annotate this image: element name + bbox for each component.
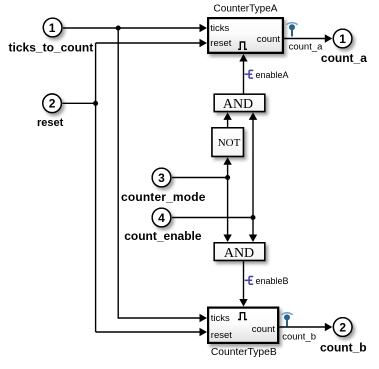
svg-text:enableA: enableA bbox=[256, 70, 289, 80]
wire enableA: AND1 output to CounterTypeA enable port bbox=[243, 61, 245, 94]
wire count_enable: port4 to AND1 input and AND2 input bbox=[172, 119, 253, 236]
svg-text:count: count bbox=[252, 324, 276, 335]
svg-text:count_b: count_b bbox=[282, 332, 316, 343]
junction dot node ticks bbox=[116, 26, 121, 31]
wire ticks_to_count: port1 to CounterTypeA ticks and down to CounterTypeB ticks bbox=[63, 28, 200, 318]
enable port icon B bbox=[245, 277, 254, 285]
block CounterTypeA bbox=[208, 18, 283, 53]
arrowhead NOT output into AND1 bbox=[223, 112, 231, 120]
arrowhead reset into CounterTypeB bbox=[200, 328, 208, 336]
arrowhead enableB into CounterTypeB bbox=[239, 299, 247, 307]
svg-text:AND: AND bbox=[224, 246, 254, 261]
arrowhead count_b into outport 2 bbox=[325, 323, 333, 331]
svg-text:count: count bbox=[257, 34, 281, 45]
wire reset: port2 to CounterTypeA reset and CounterTypeB reset bbox=[63, 43, 201, 332]
svg-text:counter_mode: counter_mode bbox=[121, 190, 206, 204]
svg-text:2: 2 bbox=[49, 97, 56, 111]
svg-text:count_a: count_a bbox=[321, 51, 367, 65]
svg-text:ticks_to_count: ticks_to_count bbox=[9, 41, 94, 55]
junction dot node counter_mode bbox=[225, 175, 230, 180]
arrowhead reset into CounterTypeA bbox=[200, 39, 208, 47]
arrowhead counter_mode into NOT bbox=[223, 157, 231, 165]
inport 2 bbox=[43, 94, 62, 113]
arrowhead count_enable into AND2 bbox=[249, 235, 257, 243]
svg-text:reset: reset bbox=[211, 330, 232, 341]
enable port icon A bbox=[245, 70, 254, 78]
gate AND2 bbox=[214, 243, 265, 261]
svg-text:enableB: enableB bbox=[256, 276, 289, 286]
svg-text:count_enable: count_enable bbox=[124, 229, 202, 243]
wire NOT output to AND1 input bbox=[227, 119, 229, 127]
arrowhead enableA into CounterTypeA bbox=[239, 54, 247, 62]
svg-text:4: 4 bbox=[158, 211, 165, 225]
outport 1 bbox=[333, 29, 352, 48]
svg-text:NOT: NOT bbox=[218, 137, 241, 149]
wire counter_mode: port3 to NOT input and AND2 input bbox=[172, 164, 228, 236]
arrowhead ticks into CounterTypeA bbox=[200, 24, 208, 32]
logging badge on count_b bbox=[282, 313, 292, 327]
inport 4 bbox=[152, 208, 171, 227]
inport 3 bbox=[152, 168, 171, 187]
junction dot node count_enable bbox=[251, 215, 256, 220]
svg-text:AND: AND bbox=[223, 97, 253, 112]
junction dot node reset bbox=[93, 101, 98, 106]
arrowhead count_a into outport 1 bbox=[325, 34, 333, 42]
block CounterTypeB bbox=[208, 308, 278, 343]
svg-text:3: 3 bbox=[158, 171, 165, 185]
wire enableB: AND2 output to CounterTypeB enable port bbox=[243, 261, 245, 300]
svg-text:CounterTypeB: CounterTypeB bbox=[211, 347, 277, 358]
svg-text:reset: reset bbox=[37, 117, 64, 129]
gate NOT1 bbox=[212, 128, 243, 157]
wire count_b: CounterTypeB output to outport 2 bbox=[279, 326, 326, 328]
svg-text:ticks: ticks bbox=[211, 313, 230, 324]
wire count_a: CounterTypeA output to outport 1 bbox=[284, 38, 326, 40]
gate AND1 bbox=[214, 94, 265, 112]
svg-text:CounterTypeA: CounterTypeA bbox=[214, 3, 278, 14]
svg-text:1: 1 bbox=[339, 32, 346, 46]
svg-text:count_a: count_a bbox=[289, 41, 324, 52]
svg-text:2: 2 bbox=[339, 320, 346, 334]
svg-text:count_b: count_b bbox=[320, 341, 367, 355]
arrowhead count_enable into AND1 bbox=[249, 112, 257, 120]
logging badge on count_a bbox=[287, 23, 297, 37]
svg-text:reset: reset bbox=[210, 38, 231, 49]
outport 2 bbox=[333, 318, 352, 337]
svg-text:ticks: ticks bbox=[210, 23, 229, 34]
arrowhead ticks into CounterTypeB bbox=[200, 314, 208, 322]
svg-text:1: 1 bbox=[49, 21, 56, 35]
arrowhead counter_mode into AND2 bbox=[223, 235, 231, 243]
inport 1 bbox=[43, 18, 62, 37]
